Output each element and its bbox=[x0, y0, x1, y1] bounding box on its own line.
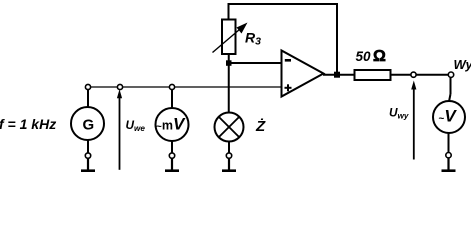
svg-text:G: G bbox=[83, 117, 95, 134]
wire: resistor to output terminal bbox=[391, 74, 449, 76]
junction at output bbox=[334, 72, 340, 78]
wire: op-amp output bbox=[323, 74, 355, 76]
node on bus above millivoltmeter bbox=[169, 84, 174, 89]
resistor R3 (variable) bbox=[222, 20, 236, 55]
arrow Uwe bbox=[119, 96, 121, 170]
node on bus at Uwe arrow bbox=[117, 84, 122, 89]
svg-text:Wy: Wy bbox=[454, 57, 471, 72]
wire: Wy terminal down to voltmeter bbox=[450, 77, 452, 94]
wire: to op-amp inverting input bbox=[229, 62, 281, 64]
resistor 50 ohm bbox=[355, 70, 391, 80]
svg-text:f = 1 kHz: f = 1 kHz bbox=[0, 116, 56, 132]
terminal Wy bbox=[448, 72, 453, 77]
terminal below millivoltmeter bbox=[169, 153, 174, 158]
millivoltmeter mV bbox=[156, 108, 189, 141]
node junction at R3 / inverting input bbox=[226, 60, 232, 66]
wire: R3 bottom down through bus to lamp bbox=[228, 54, 230, 113]
ground bar below voltmeter bbox=[442, 169, 456, 172]
wire: feedback right vertical from output junction bbox=[336, 3, 338, 75]
ground bar below generator bbox=[81, 169, 95, 172]
wire: bus down to generator bbox=[87, 90, 89, 108]
R3 wiper arrow bbox=[213, 27, 244, 53]
terminal below generator bbox=[85, 153, 90, 158]
generator G bbox=[71, 107, 104, 140]
terminal below voltmeter bbox=[446, 153, 451, 158]
op-amp plus mark bbox=[285, 87, 292, 89]
wire: feedback left vertical down to R3 bbox=[228, 3, 230, 20]
svg-text:Ż: Ż bbox=[255, 118, 266, 135]
wire: feedback top horizontal bbox=[229, 3, 338, 5]
node on bus above generator bbox=[85, 84, 90, 89]
terminal below lamp bbox=[226, 153, 231, 158]
arrow Uwy bbox=[413, 88, 415, 160]
svg-text:Ω: Ω bbox=[373, 48, 386, 65]
wire: millivoltmeter bottom bbox=[171, 141, 173, 153]
wire: generator bottom bbox=[87, 140, 89, 153]
wire: voltmeter bottom bbox=[448, 133, 450, 153]
node on output wire bbox=[411, 72, 416, 77]
op-amp minus mark bbox=[285, 59, 291, 62]
op-amp U1 bbox=[282, 51, 324, 97]
wire: lamp bottom bbox=[228, 142, 230, 154]
ground bar below millivoltmeter bbox=[165, 169, 179, 172]
voltmeter V bbox=[433, 101, 465, 133]
ground bar below lamp bbox=[222, 169, 236, 172]
wire: bus down to millivoltmeter bbox=[171, 90, 173, 108]
lamp Z (circle with X) bbox=[215, 113, 244, 142]
wire: main input bus to op-amp + input bbox=[88, 86, 281, 88]
svg-text:50: 50 bbox=[356, 49, 372, 64]
